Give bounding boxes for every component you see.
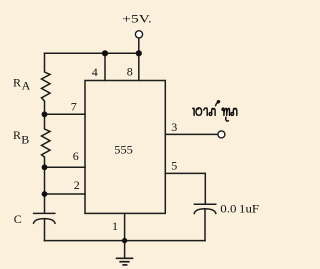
wire: top supply rail from RA top corner to pin8 tap <box>45 52 139 54</box>
glyph o-ang <box>196 108 202 115</box>
svg-text:1: 1 <box>112 219 118 233</box>
terminal circle output pin3 <box>218 131 225 138</box>
svg-text:B: B <box>21 133 29 147</box>
glyph thanthakhat above <box>216 101 220 106</box>
node: junction dot RA/RB pin7 <box>42 111 48 117</box>
node: junction dot pin8/+5V tap <box>136 50 142 56</box>
wire: pin 5 lead right and down <box>165 173 205 203</box>
svg-text:2: 2 <box>74 178 80 192</box>
capacitor C2 0.01uF curved bottom plate <box>194 209 216 214</box>
svg-text:555: 555 <box>114 143 133 157</box>
svg-text:A: A <box>22 79 31 93</box>
wire: pin 3 output lead <box>165 133 217 135</box>
glyph sara-e <box>193 108 194 115</box>
wire: pin 4 lead from rail to IC top <box>104 53 106 80</box>
svg-text:3: 3 <box>171 120 177 134</box>
svg-text:+5V.: +5V. <box>122 12 152 26</box>
svg-text:C: C <box>14 212 22 226</box>
svg-text:8: 8 <box>127 65 133 79</box>
ground symbol bars <box>116 258 134 265</box>
svg-text:R: R <box>13 76 21 90</box>
wire: junction 2 down to capacitor C <box>44 194 46 213</box>
svg-text:4: 4 <box>92 65 98 79</box>
wire: bottom ground rail <box>45 240 206 242</box>
glyph sara-u below <box>226 117 229 121</box>
svg-text:R: R <box>13 128 21 142</box>
capacitor C curved bottom plate <box>34 219 56 224</box>
svg-text:7: 7 <box>71 100 77 114</box>
svg-text:5: 5 <box>171 158 177 172</box>
terminal circle +5V <box>135 31 142 38</box>
glyph to-tao 2 <box>231 108 237 115</box>
label Thai output word (hand-drawn paths) <box>192 101 237 121</box>
wire: pin 7 lead <box>45 113 86 115</box>
node: junction dot pin1/ground <box>122 238 127 243</box>
svg-text:6: 6 <box>73 149 79 163</box>
node: junction dot pin2 <box>42 191 48 197</box>
resistor RA <box>42 53 51 114</box>
wire: capacitor C bottom lead to ground rail <box>44 219 46 240</box>
wire: junction 6 to junction 2 <box>44 167 46 194</box>
capacitor C top plate <box>34 212 55 214</box>
glyph sara-aa <box>204 108 207 115</box>
wire: capacitor C2 bottom lead <box>204 210 206 241</box>
glyph to-tao 1 <box>209 108 215 115</box>
ground symbol stub <box>124 241 126 258</box>
wire: pin 1 lead from IC bottom to rail <box>124 213 126 240</box>
capacitor C2 0.01uF top plate <box>194 203 215 205</box>
wire: pin 2 lead <box>45 193 86 195</box>
wire: pin 6 lead <box>45 166 86 168</box>
op IC 555 box U1 <box>85 81 165 214</box>
glyph pho-phan <box>222 108 229 115</box>
svg-text:0.0 1uF: 0.0 1uF <box>220 201 259 215</box>
wire: pin 8 lead from rail to IC top <box>138 53 140 80</box>
wire: +5V terminal lead down to rail <box>138 38 140 53</box>
resistor RB <box>42 114 51 167</box>
node: junction dot RB/pin6 <box>42 164 48 170</box>
node: junction dot pin4 tap <box>102 50 108 56</box>
